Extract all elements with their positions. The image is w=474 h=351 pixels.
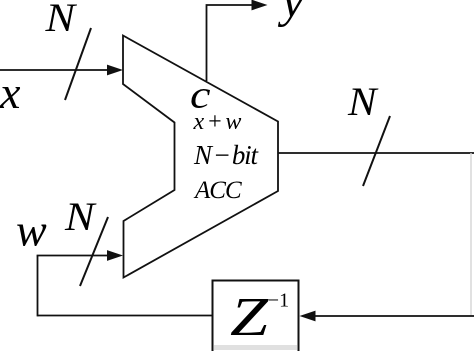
wire accumulator output	[278, 152, 474, 154]
wire carry out y	[207, 5, 253, 81]
arrowhead y	[252, 0, 268, 10]
svg-text:x+w: x+w	[193, 109, 244, 135]
svg-text:N−bit: N−bit	[193, 140, 259, 170]
arrowhead into Z block	[300, 311, 316, 322]
wire right vertical feedback	[470, 153, 472, 316]
svg-text:w: w	[16, 204, 47, 255]
arrowhead w input	[107, 250, 123, 261]
wire w vertical	[37, 256, 39, 317]
wire x input	[0, 69, 110, 71]
bus slash on w input	[80, 217, 108, 286]
delay block Z1	[213, 281, 299, 351]
bus slash on x input	[65, 28, 91, 100]
delay block bottom edge (faded)	[214, 345, 297, 350]
svg-text:y: y	[277, 0, 304, 28]
svg-text:N: N	[347, 79, 379, 124]
arrowhead x input	[107, 65, 123, 76]
svg-text:Z: Z	[230, 286, 270, 347]
svg-text:N: N	[64, 194, 97, 239]
svg-text:N: N	[44, 0, 77, 40]
svg-text:x: x	[0, 67, 21, 118]
accumulator ACC U1	[123, 36, 278, 278]
bus slash on output	[363, 116, 390, 186]
svg-text:−1: −1	[268, 290, 289, 312]
svg-text:ACC: ACC	[193, 177, 242, 204]
wire bottom feedback into Z	[313, 315, 474, 317]
wire w horizontal	[37, 255, 110, 257]
wire Z output left	[38, 315, 213, 317]
